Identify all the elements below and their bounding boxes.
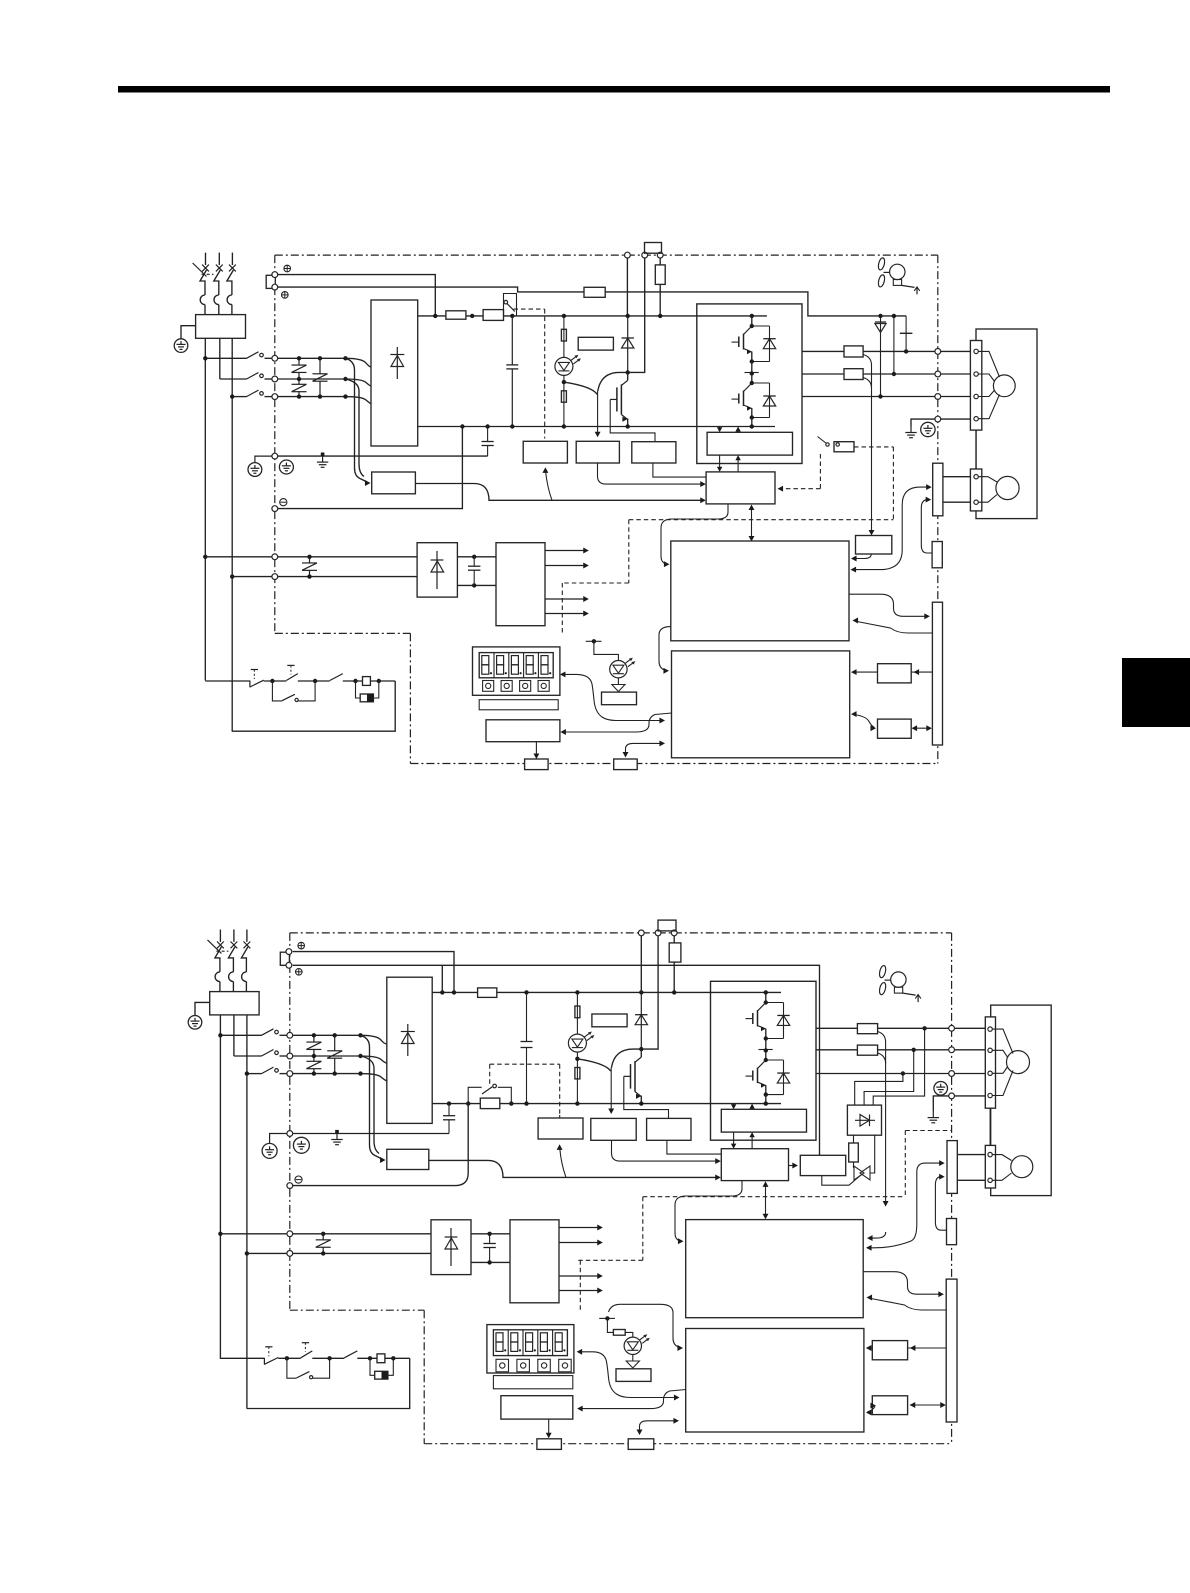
motor terminal strip xyxy=(970,341,981,431)
breaker pole 2 (bottom) xyxy=(228,930,237,992)
gate to board link (bottom) xyxy=(675,1181,742,1245)
brake node junction (bottom) xyxy=(639,990,643,994)
terminal L2C circle xyxy=(272,574,278,580)
B2 terminal lead xyxy=(659,258,661,265)
indicator tick xyxy=(586,639,602,643)
relay line seg3 (bottom) xyxy=(312,1356,344,1360)
charge lead (bottom) xyxy=(576,992,578,1034)
strip link (bottom) xyxy=(989,1108,991,1145)
PE line xyxy=(278,455,488,457)
CN1 to R1 (bottom) xyxy=(908,1345,947,1351)
encoder circles (bottom) xyxy=(988,1152,992,1182)
motor lead 3 xyxy=(941,396,971,398)
regen capacitor (bottom) xyxy=(521,992,533,1103)
rectifier bridge box xyxy=(371,300,418,446)
phase bus 3 xyxy=(278,396,346,398)
brake sense line (bottom) xyxy=(608,1068,614,1114)
fuse 1 xyxy=(446,311,466,319)
connector CN2 xyxy=(933,463,943,516)
PE chassis (bottom) xyxy=(331,1130,342,1145)
CN2 link B xyxy=(921,497,932,553)
U line xyxy=(802,350,844,352)
stop pushbutton xyxy=(250,670,264,688)
Y-capacitor xyxy=(482,427,494,457)
L1C branch xyxy=(203,555,272,559)
resistor lead (bottom) xyxy=(672,962,676,995)
gate input 2 (bottom) xyxy=(612,1140,721,1164)
charge mid junction (bottom) xyxy=(575,1057,579,1061)
control board 2 (bottom) xyxy=(686,1329,864,1433)
psu box (bottom) xyxy=(510,1220,559,1303)
board1 right arrow xyxy=(0,0,1,1)
junction L1 tap (bottom) xyxy=(218,1033,222,1037)
charge lamp junction xyxy=(562,314,566,318)
fan thermostat xyxy=(818,437,855,452)
phase into rectifier 3 xyxy=(343,394,371,403)
ext connector box 1 (bottom) xyxy=(537,1439,562,1450)
terminal U circle (bottom) xyxy=(949,1025,955,1031)
motor terminal circles (bottom) xyxy=(988,1027,992,1098)
sense box output xyxy=(851,554,871,561)
L1C branch (bottom) xyxy=(218,1232,287,1236)
phase L3 drop (bottom) xyxy=(246,1015,248,1409)
noise filter box xyxy=(196,315,246,339)
control varistor (bottom) xyxy=(316,1232,331,1256)
surge absorber xyxy=(356,681,379,702)
connector CN1 xyxy=(932,602,942,745)
terminal L1 circle (bottom) xyxy=(287,1032,293,1038)
filter earth lead xyxy=(181,326,196,339)
amplifier boundary (top diagram) xyxy=(275,255,938,763)
signal box R1 (bottom) xyxy=(872,1341,907,1360)
L2C branch xyxy=(230,574,272,578)
varistor a1 (bottom) xyxy=(306,1033,321,1058)
minus terminal lead xyxy=(278,427,463,509)
gate board bidir (bottom) xyxy=(763,1181,769,1219)
terminal W circle (bottom) xyxy=(949,1071,955,1077)
fuse 2 xyxy=(483,310,503,321)
interface arrows top (bottom) xyxy=(731,1104,755,1110)
boundary connector box xyxy=(932,542,942,568)
display link xyxy=(560,671,665,723)
dashed enclosure xyxy=(562,520,894,634)
varistor a2 xyxy=(292,381,307,399)
motor lead 4 xyxy=(941,418,971,420)
aux contact (bottom) xyxy=(344,1351,357,1358)
motor earth ground (bottom) xyxy=(928,1112,939,1123)
relay branch (bottom) xyxy=(557,1144,566,1177)
board1-2 link (bottom) xyxy=(609,1304,684,1351)
motor lead 1 xyxy=(941,350,971,352)
phase bus 2 (bottom) xyxy=(293,1055,361,1057)
Y-capacitor (bottom) xyxy=(443,1104,455,1134)
driver box B input xyxy=(653,463,706,477)
N rail (bottom) xyxy=(432,1103,781,1105)
control line 2 xyxy=(278,576,417,578)
indicator box (bottom) xyxy=(616,1369,651,1382)
driver box B input (bottom) xyxy=(667,1140,721,1154)
relay return xyxy=(232,681,395,731)
control dc 1 (bottom) xyxy=(471,1232,510,1236)
phase line L3 drop xyxy=(231,338,233,731)
terminal U circle xyxy=(935,349,941,355)
earth terminal circle xyxy=(174,339,188,353)
indicator triangle (bottom) xyxy=(626,1355,639,1369)
PE circle (bottom) xyxy=(287,1131,293,1137)
brake gate feed (bottom) xyxy=(577,1049,641,1071)
encoder fanout xyxy=(978,477,997,503)
display box2 link xyxy=(560,713,671,735)
encoder circle xyxy=(996,476,1019,499)
charge resistor 1 xyxy=(561,329,566,341)
relay line seg3 xyxy=(298,679,330,683)
relay line seg5 xyxy=(370,679,395,683)
minus symbol (bottom) xyxy=(295,1176,302,1183)
indicator tick (bottom) xyxy=(599,1316,615,1320)
board2 connector link xyxy=(623,740,665,757)
minus lead (bottom) xyxy=(292,1104,469,1186)
V line (bottom) xyxy=(816,1049,857,1051)
display label bar xyxy=(479,700,558,710)
IGBT module box xyxy=(697,304,802,464)
charge resistor 2 (bottom) xyxy=(575,1068,580,1079)
thermostat dashed right xyxy=(854,447,893,520)
internal resistor (bottom) xyxy=(669,943,681,962)
driver box A (bottom) xyxy=(591,1118,636,1140)
encoder fanout (bottom) xyxy=(992,1155,1011,1181)
V line 2 xyxy=(863,372,935,376)
display label bar (bottom) xyxy=(493,1376,572,1389)
psu output 4 xyxy=(545,611,589,617)
contactor contact 1 xyxy=(205,352,272,359)
relay line seg2 (bottom) xyxy=(278,1356,301,1360)
terminal P circle (bottom) xyxy=(638,930,644,936)
current sensor V (bottom) xyxy=(857,1045,877,1055)
gate drive box xyxy=(706,472,775,504)
B1 terminal lead xyxy=(630,258,645,372)
junction L3 tap (bottom) xyxy=(245,1071,249,1075)
thyristor gate xyxy=(822,1175,862,1186)
indicator triangle xyxy=(612,678,625,692)
comms box link down xyxy=(533,742,539,759)
driver box 0 xyxy=(523,441,567,463)
brake collector node xyxy=(626,370,630,374)
boxC output (bottom) xyxy=(867,1232,886,1241)
P terminal lead (bottom) xyxy=(640,936,642,993)
encoder terminal strip xyxy=(970,469,981,511)
external connector box 1 xyxy=(525,759,549,770)
tap to control 2 (bottom) xyxy=(361,1056,380,1154)
CN1 to R1 xyxy=(911,669,932,675)
terminal V circle xyxy=(935,371,941,377)
external connector box 2 xyxy=(614,759,638,770)
regen resistor jumper box xyxy=(645,243,662,254)
psu out 3 (bottom) xyxy=(559,1273,603,1279)
terminal R circle xyxy=(272,272,278,278)
encoder terminal circles xyxy=(974,475,978,505)
internal regen resistor xyxy=(655,265,665,285)
terminal block top xyxy=(266,275,275,288)
driver box B (bottom) xyxy=(647,1118,691,1140)
charge lamp lead xyxy=(563,316,565,358)
circuit breaker pole 1 xyxy=(200,253,209,315)
brake gate feed xyxy=(564,372,628,394)
CN1 to board1 (bottom) xyxy=(867,1295,947,1310)
recovery diode box xyxy=(847,1105,881,1135)
contactor contact 1 (bottom) xyxy=(220,1029,287,1036)
minus symbol xyxy=(280,499,287,506)
minus circle (bottom) xyxy=(287,1183,293,1189)
amplifier boundary (bottom diagram) xyxy=(290,933,952,1444)
display window (bottom) xyxy=(493,1330,567,1356)
control varistor xyxy=(302,555,317,579)
control board 1 xyxy=(671,541,849,641)
thyristor right leg xyxy=(870,1135,875,1173)
motor outline box xyxy=(976,329,1037,519)
breaker pole 3 (bottom) xyxy=(241,930,250,992)
tap to control 1 (bottom) xyxy=(361,1035,376,1155)
terminal S circle xyxy=(272,284,278,290)
indicator LED xyxy=(610,658,636,678)
relay coil box (bottom) xyxy=(377,1354,385,1363)
control line 1 (bottom) xyxy=(293,1233,431,1235)
motor fanout (bottom) xyxy=(992,1029,1013,1095)
relay line seg2 xyxy=(264,679,287,683)
brake label box xyxy=(578,337,613,350)
interface arrows bottom xyxy=(717,455,741,472)
R2 to board2 (bottom) xyxy=(866,1403,876,1416)
terminal V circle (bottom) xyxy=(949,1047,955,1053)
breaker pole 1 (bottom) xyxy=(215,930,224,992)
terminal L2 circle (bottom) xyxy=(287,1053,293,1059)
control line 2 (bottom) xyxy=(293,1252,431,1254)
CN2 link A xyxy=(851,484,932,572)
boundary connector box (bottom) xyxy=(947,1219,957,1245)
current sense amp box xyxy=(856,536,892,555)
L2C circle (bottom) xyxy=(287,1251,293,1257)
current sensor U (bottom) xyxy=(857,1024,877,1034)
thyristor xyxy=(854,1166,870,1180)
varistor b xyxy=(313,356,328,399)
brake node junction xyxy=(626,314,630,318)
terminal S circle (bottom) xyxy=(286,962,292,968)
header rule xyxy=(118,86,1110,93)
display unit box xyxy=(473,647,560,695)
B line feed xyxy=(278,287,584,292)
tap arrow into inrush (bottom) xyxy=(375,1156,386,1163)
board1 board2 link xyxy=(659,627,671,674)
module half-bridge xyxy=(732,314,776,429)
PE symbol A (bottom) xyxy=(262,1134,287,1159)
phase L2 drop (bottom) xyxy=(233,1015,235,1056)
driver box 0 (bottom) xyxy=(538,1118,583,1139)
display dividers (bottom) xyxy=(508,1330,552,1356)
relay bypass contact xyxy=(504,294,517,316)
PE terminal circle xyxy=(272,453,278,459)
display window xyxy=(479,653,553,678)
motor fanout xyxy=(978,351,999,418)
latch branch (bottom) xyxy=(287,1358,330,1378)
display buttons xyxy=(483,681,550,692)
charge lamp lead 2 xyxy=(563,375,565,426)
motor terminal circles xyxy=(974,349,978,421)
terminal E circle (bottom) xyxy=(949,1093,955,1099)
P terminal lead xyxy=(626,258,628,316)
phase bus 1 xyxy=(278,357,346,359)
U line (bottom) xyxy=(816,1027,857,1029)
phase into rectifier 2 (bottom) xyxy=(358,1054,387,1063)
relay line seg4 (bottom) xyxy=(357,1356,377,1360)
terminal circle P xyxy=(625,252,631,258)
control rectifier diode xyxy=(431,551,444,589)
terminal E circle xyxy=(935,416,941,422)
indicator resistor (bottom) xyxy=(613,1330,625,1336)
terminal oplus 1 xyxy=(284,265,291,272)
minus terminal circle xyxy=(272,506,278,512)
switching power supply box xyxy=(496,543,545,626)
P rail xyxy=(418,315,767,317)
display unit (bottom) xyxy=(487,1325,574,1373)
relay line seg5 (bottom) xyxy=(385,1356,410,1360)
current feedback (bottom) xyxy=(878,1032,889,1207)
breaker lever (bottom) xyxy=(208,940,222,954)
PE chassis ground xyxy=(317,453,328,468)
surge absorber (bottom) xyxy=(370,1358,393,1379)
regen driver box xyxy=(800,1155,845,1175)
rectifier diode symbol (bottom) xyxy=(401,1024,415,1056)
IGBT module box (bottom) xyxy=(711,981,817,1140)
relay line seg4 xyxy=(343,679,363,683)
encoder strip (bottom) xyxy=(985,1145,995,1188)
current sensor U xyxy=(844,346,863,357)
encoder cable (bottom) xyxy=(957,1155,985,1181)
U line 2 (bottom) xyxy=(878,1027,949,1029)
motor leads (bottom) xyxy=(955,1028,986,1096)
gate drive box (bottom) xyxy=(721,1149,788,1181)
control line 1 xyxy=(278,556,417,558)
psu output 1 xyxy=(545,548,589,554)
phase into rectifier 1 (bottom) xyxy=(358,1033,387,1044)
encoder cable 1 xyxy=(943,476,971,478)
N rail junctions (bottom) xyxy=(447,1101,644,1105)
module half-bridge (bottom) xyxy=(746,990,790,1106)
terminal L1C circle xyxy=(272,554,278,560)
motor circle (bottom) xyxy=(1007,1051,1030,1074)
display box2 link (bottom) xyxy=(577,1390,686,1412)
terminal 2 feed (bottom) xyxy=(293,965,820,1155)
motor strip (bottom) xyxy=(985,1017,995,1108)
terminal L1 circle xyxy=(272,355,278,361)
terminal B1 circle (bottom) xyxy=(655,930,661,936)
relay coil box xyxy=(363,677,371,686)
inrush box output xyxy=(415,484,705,504)
terminal R circle (bottom) xyxy=(286,949,292,955)
charge LED xyxy=(555,355,581,376)
CN2 arrows (bottom) xyxy=(0,0,1,1)
bypass dashed link xyxy=(514,309,545,438)
gate to board link xyxy=(661,504,728,567)
motor PE symbol xyxy=(921,422,935,436)
motor lead 2 xyxy=(941,373,971,375)
display buttons (bottom) xyxy=(496,1359,571,1372)
breaker tie bar (bottom) xyxy=(216,950,228,952)
rectifier diode symbol xyxy=(390,347,404,379)
relay drive branch xyxy=(542,467,552,500)
terminal W circle xyxy=(935,394,941,400)
control board 2 xyxy=(672,651,850,758)
indicator label box xyxy=(602,692,637,705)
gate to regen driver xyxy=(789,1163,798,1169)
varistor a2 (bottom) xyxy=(306,1058,321,1076)
inrush control box xyxy=(372,472,416,494)
main bus capacitor xyxy=(506,316,518,427)
encoder cable 2 xyxy=(943,501,971,503)
phase line L1 drop xyxy=(204,338,206,680)
brake transistor (bottom) xyxy=(624,1049,642,1104)
current feedback line xyxy=(863,355,874,536)
encoder circle (bottom) xyxy=(1011,1156,1033,1178)
phase L1 drop (bottom) xyxy=(219,1015,221,1358)
W line xyxy=(802,394,935,398)
tap to control power 1 xyxy=(346,358,361,478)
comms link down (bottom) xyxy=(546,1419,552,1438)
control dc link 2 xyxy=(457,583,496,587)
phase into rectifier 1 xyxy=(343,356,371,367)
brake collector node (bottom) xyxy=(639,1047,643,1051)
terminal L3 circle xyxy=(272,394,278,400)
N branch junction 2 xyxy=(485,424,489,428)
diode box link 3 xyxy=(855,1071,905,1105)
board2 connector link (bottom) xyxy=(637,1418,679,1435)
filter earth lead (bottom) xyxy=(195,1002,210,1015)
stop pushbutton (bottom) xyxy=(264,1347,278,1365)
W line (bottom) xyxy=(816,1073,949,1075)
display dividers xyxy=(494,653,538,678)
earth terminal circle (bottom) xyxy=(188,1016,202,1030)
PE circle symbol B xyxy=(279,460,293,474)
terminal 1 feed xyxy=(278,275,438,318)
signal box R2 xyxy=(878,719,912,738)
module interface box xyxy=(707,432,792,455)
regen jumper box (bottom) xyxy=(658,920,676,931)
oplus 1 (bottom) xyxy=(298,942,305,949)
PE line (bottom) xyxy=(293,1133,449,1135)
strip link xyxy=(975,430,977,469)
module interface box (bottom) xyxy=(721,1109,806,1132)
brake diode (bottom) xyxy=(635,992,647,1049)
start pushbutton (bottom) xyxy=(301,1343,313,1358)
regen bypass contact (bottom) xyxy=(466,1084,514,1106)
brake diode xyxy=(622,316,634,373)
P rail junction cap xyxy=(510,314,514,318)
brake transistor xyxy=(610,372,628,426)
junction L3 tap xyxy=(230,394,234,398)
circuit breaker pole 3 xyxy=(227,253,236,315)
external regen dashed box xyxy=(490,1064,560,1118)
thermostat dashed link xyxy=(778,454,821,492)
contactor contact 3 (bottom) xyxy=(247,1067,287,1074)
phase bus 3 (bottom) xyxy=(293,1073,361,1075)
comms box (bottom) xyxy=(501,1396,573,1419)
inrush box (bottom) xyxy=(387,1149,429,1169)
indicator lead xyxy=(594,641,619,660)
board1 to CN1 xyxy=(849,594,930,619)
control dc 2 (bottom) xyxy=(471,1260,510,1264)
indicator lead 2 (bottom) xyxy=(625,1332,633,1337)
diode box link 1 xyxy=(873,1026,927,1105)
current sensor V xyxy=(844,369,863,380)
recovery diode glyph xyxy=(855,1115,875,1127)
